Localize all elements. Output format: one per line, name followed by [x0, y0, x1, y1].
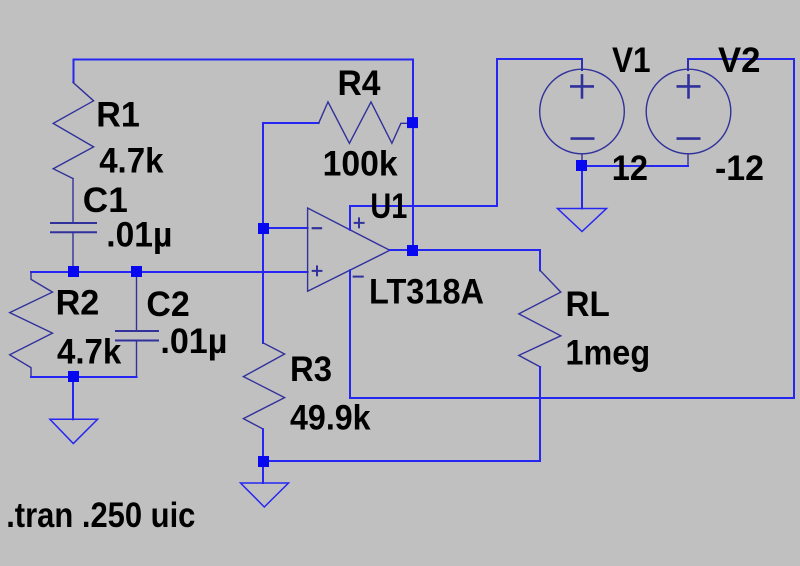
wire R1 bottom to C1: [72, 179, 74, 223]
junction node inverting input: [258, 223, 269, 234]
svg-text:R4: R4: [338, 64, 382, 103]
resistor R3: [243, 343, 284, 429]
wire top rail from R1 top to R4 output column: [74, 59, 414, 61]
U1 inverting input mark: [313, 227, 321, 229]
junction node output: [407, 245, 418, 256]
wire V1 bottom to V2 bottom: [582, 165, 688, 167]
svg-text:RL: RL: [566, 285, 610, 324]
wire output lead to RL: [390, 249, 540, 251]
svg-text:C1: C1: [83, 181, 128, 220]
junction node V1 bottom: [576, 160, 587, 171]
svg-text:.01µ: .01µ: [160, 322, 227, 361]
U1 V+ supply mark: [355, 218, 364, 227]
junction node C1 bottom: [68, 266, 79, 277]
svg-text:49.9k: 49.9k: [290, 399, 371, 438]
svg-text:4.7k: 4.7k: [57, 332, 122, 371]
wire R1 top lead: [73, 60, 75, 83]
U1 non-inverting input mark: [313, 266, 322, 275]
junction node C2 top: [131, 266, 142, 277]
voltage source V1: [540, 59, 625, 166]
U1 V- supply mark: [354, 276, 363, 278]
wire RL bottom lead: [539, 367, 541, 461]
svg-text:.01µ: .01µ: [106, 215, 172, 254]
svg-text:12: 12: [612, 149, 648, 188]
wire RL bottom row to R3 node: [263, 460, 540, 462]
resistor R1: [53, 82, 93, 178]
junction node R4 right: [407, 117, 418, 128]
ground symbol below R3: [241, 483, 289, 507]
ground symbol below R2: [50, 419, 98, 443]
wire RL top lead: [539, 250, 541, 270]
wire ground stub V1: [581, 166, 583, 209]
voltage source V2: [646, 59, 731, 166]
wire V- supply stub down and rail: [350, 59, 794, 398]
resistor R4: [319, 102, 407, 143]
wire V+ supply stub up: [349, 206, 351, 230]
svg-text:U1: U1: [370, 187, 407, 226]
wire ground stub R3: [262, 461, 264, 483]
wire R4 left lead and corner: [263, 122, 319, 124]
junction node R3 bottom: [258, 456, 269, 467]
wire inverting input stub: [263, 227, 308, 229]
svg-text:V1: V1: [612, 41, 651, 80]
resistor R2: [10, 272, 53, 377]
capacitor C1: [51, 223, 96, 271]
wire ground stub R2: [72, 377, 74, 419]
svg-text:LT318A: LT318A: [369, 273, 484, 312]
svg-text:R1: R1: [96, 96, 140, 135]
svg-text:1meg: 1meg: [566, 334, 651, 373]
svg-text:-12: -12: [715, 149, 764, 188]
svg-text:4.7k: 4.7k: [99, 142, 164, 181]
svg-text:C2: C2: [146, 285, 189, 324]
wire R3 bottom lead: [262, 429, 264, 461]
ground symbol below V1: [558, 209, 607, 232]
wire vertical output column x=413: [412, 60, 414, 251]
svg-text:.tran .250 uic: .tran .250 uic: [6, 496, 195, 535]
resistor RL: [519, 270, 561, 367]
svg-text:R3: R3: [290, 350, 332, 389]
svg-text:V2: V2: [718, 41, 761, 80]
svg-text:R2: R2: [56, 283, 100, 322]
wire V+ rail to V1: [350, 59, 582, 206]
wire bottom row R2/C2: [31, 376, 137, 378]
wire inverting input column x=263: [262, 123, 264, 343]
wire long input row y=271.4: [31, 271, 308, 273]
op-amp U1 triangle: [308, 208, 390, 291]
capacitor C2: [116, 272, 158, 377]
svg-text:100k: 100k: [323, 144, 399, 183]
junction node R2 bottom: [68, 371, 79, 382]
